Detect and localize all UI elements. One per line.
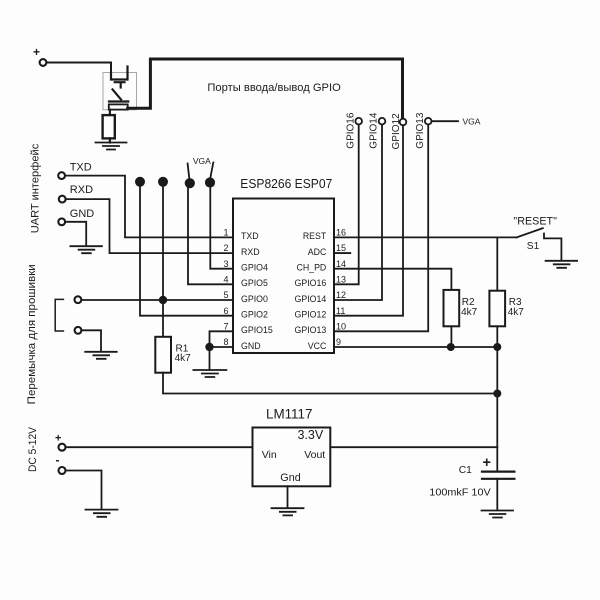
- resistor R2: [444, 290, 460, 326]
- svg-text:GPIO14: GPIO14: [369, 112, 380, 149]
- wire GPIO16 to pin13: [334, 125, 359, 285]
- wire from + to transistor: [47, 63, 111, 75]
- node GPIO13 terminal: [425, 118, 432, 125]
- svg-text:C1: C1: [459, 465, 472, 476]
- switch S1 arm: [517, 228, 543, 237]
- wire GND to ground: [65, 222, 86, 246]
- node pad 3 (to GPIO5 pin4): [185, 178, 195, 188]
- wire pin8 GND to ground join: [210, 346, 234, 348]
- svg-text:100mkF 10V: 100mkF 10V: [429, 488, 490, 499]
- wire RXD to pin2: [66, 199, 233, 253]
- svg-text:VCC: VCC: [308, 341, 327, 351]
- resistor R3: [489, 291, 505, 327]
- svg-text:8: 8: [223, 337, 228, 347]
- svg-text:+: +: [483, 455, 491, 471]
- wire pad4 to pin3: [210, 185, 233, 269]
- wire DC- to ground: [66, 471, 102, 510]
- svg-text:VGA: VGA: [463, 116, 481, 126]
- svg-text:Порты ввода/вывод GPIO: Порты ввода/вывод GPIO: [207, 82, 341, 94]
- svg-text:7: 7: [223, 322, 228, 332]
- svg-text:"RESET": "RESET": [513, 215, 557, 227]
- wire thick feed from transistor to GPIO12 header: [128, 59, 403, 118]
- svg-text:+: +: [33, 45, 40, 59]
- transistor Q1 emitter diagonal stroke: [113, 89, 122, 99]
- svg-text:3: 3: [223, 259, 228, 269]
- wire junction to R1: [162, 300, 164, 337]
- svg-text:REST: REST: [303, 231, 327, 241]
- junction dot R2/VCC: [447, 343, 455, 351]
- junction dot VCC/R1 net: [493, 390, 501, 398]
- wire VCC down to regulator output: [496, 394, 498, 472]
- wire pin16 REST to switch: [334, 236, 517, 238]
- svg-text:GPIO5: GPIO5: [241, 278, 268, 288]
- wire R1 to VCC net: [163, 373, 497, 394]
- node pad 2 (to GPIO0 pin5 net): [158, 177, 168, 187]
- svg-text:S1: S1: [527, 241, 540, 252]
- svg-text:Vin: Vin: [262, 449, 277, 461]
- svg-text:-: -: [56, 453, 60, 467]
- svg-text:9: 9: [336, 337, 341, 347]
- transistor Q1 outline box (faint): [103, 73, 137, 110]
- svg-text:GPIO4: GPIO4: [241, 263, 268, 273]
- ground (LM1117): [272, 508, 304, 515]
- switch S1 contact: [544, 234, 561, 261]
- svg-text:GPIO2: GPIO2: [241, 309, 268, 319]
- junction dot pin5/R1: [159, 296, 167, 304]
- IC U1 ESP8266 box: [233, 199, 334, 354]
- node GPIO14 terminal: [379, 118, 386, 125]
- terminal DC -: [59, 467, 66, 474]
- wire pin15 ADC stub: [334, 252, 350, 254]
- jumper bracket: [55, 299, 63, 331]
- ground (UART GND): [70, 246, 102, 253]
- svg-text:14: 14: [336, 259, 346, 269]
- svg-text:4k7: 4k7: [508, 307, 525, 318]
- wire jumper bottom to ground: [82, 330, 102, 351]
- wire DC+ to Vin: [66, 446, 253, 448]
- wire pad3 to pin4: [188, 186, 233, 284]
- terminal TXD: [58, 172, 65, 179]
- svg-text:GPIO14: GPIO14: [295, 294, 327, 304]
- svg-text:12: 12: [336, 290, 346, 300]
- wire R3 to VCC rail: [496, 326, 498, 347]
- wire GPIO13 to pin10: [334, 125, 428, 332]
- node GPIO16 terminal: [355, 118, 362, 125]
- capacitor C1 plates: [482, 472, 514, 479]
- wire REST to R3: [496, 237, 498, 290]
- wire pin14 CH_PD to R2: [334, 269, 451, 290]
- svg-text:16: 16: [336, 228, 346, 238]
- svg-text:GPIO0: GPIO0: [241, 294, 268, 304]
- wire R2 to VCC rail: [450, 326, 452, 347]
- terminal + (top left supply): [40, 59, 47, 66]
- svg-text:CH_PD: CH_PD: [296, 263, 326, 273]
- wire transistor to base resistor: [109, 110, 111, 116]
- ground (DC-): [86, 510, 118, 517]
- svg-text:GPIO13: GPIO13: [295, 325, 327, 335]
- terminal RXD: [59, 196, 66, 203]
- regulator U2 LM1117 box: [253, 428, 331, 487]
- svg-text:4k7: 4k7: [175, 353, 192, 364]
- stub pad3: [188, 164, 190, 179]
- terminal DC +: [59, 444, 66, 451]
- svg-text:Vout: Vout: [304, 449, 325, 461]
- node pad 4 (to GPIO4 pin3): [205, 177, 215, 187]
- svg-text:1: 1: [223, 228, 228, 238]
- wire pad1 to pin6: [140, 184, 233, 316]
- transistor Q1 collector cup stroke: [111, 67, 128, 80]
- terminal jumper top: [75, 296, 82, 303]
- svg-text:GPIO15: GPIO15: [241, 325, 273, 335]
- ground (below transistor): [96, 143, 127, 150]
- junction dot R3/VCC: [493, 343, 501, 351]
- wire pin7 GPIO15 to ground join: [210, 331, 234, 347]
- wire Gnd pin to ground: [287, 486, 289, 508]
- svg-text:GPIO12: GPIO12: [295, 309, 327, 319]
- ground (pins 7/8): [193, 370, 226, 377]
- svg-text:4: 4: [223, 275, 228, 285]
- svg-text:TXD: TXD: [241, 231, 259, 241]
- svg-text:Gnd: Gnd: [280, 472, 300, 484]
- svg-text:10: 10: [336, 322, 346, 332]
- transistor Q1 bottom bar: [109, 100, 128, 102]
- svg-text:6: 6: [223, 306, 228, 316]
- wire GPIO14 to pin12: [334, 125, 382, 301]
- svg-text:DC 5-12V: DC 5-12V: [27, 426, 39, 472]
- resistor R1: [155, 337, 171, 373]
- junction dot pin7/pin8: [205, 343, 213, 351]
- svg-text:RXD: RXD: [70, 184, 93, 196]
- svg-text:GND: GND: [70, 208, 95, 220]
- svg-text:2: 2: [223, 243, 228, 253]
- node GPIO12 terminal: [400, 119, 407, 126]
- wire C1 to ground: [496, 479, 498, 510]
- wire Vout to C1/VCC: [330, 446, 497, 448]
- wire GPIO13 to VGA: [432, 120, 459, 122]
- svg-text:VGA: VGA: [193, 156, 211, 166]
- svg-text:TXD: TXD: [70, 161, 92, 173]
- svg-text:4k7: 4k7: [461, 307, 478, 318]
- ground (jumper): [85, 352, 117, 359]
- wire resistor to ground: [109, 138, 111, 142]
- resistor (base, unlabeled): [103, 115, 115, 138]
- ground (S1): [546, 261, 578, 268]
- node pad 1 (to GPIO2 pin6): [135, 177, 145, 187]
- svg-text:Перемычка для прошивки: Перемычка для прошивки: [26, 264, 38, 404]
- svg-text:UART интерфейс: UART интерфейс: [29, 143, 41, 233]
- terminal GND: [58, 218, 65, 225]
- wire pin9 VCC rail: [334, 346, 497, 348]
- svg-text:11: 11: [336, 306, 345, 316]
- stub pad4: [210, 163, 213, 179]
- wire pad2 down to junction: [162, 185, 164, 301]
- transistor Q1 body rectangle: [109, 104, 128, 109]
- svg-text:13: 13: [336, 275, 346, 285]
- svg-text:GPIO16: GPIO16: [345, 112, 356, 149]
- svg-text:GPIO13: GPIO13: [415, 112, 426, 149]
- ground (C1): [482, 511, 514, 518]
- svg-text:3.3V: 3.3V: [298, 428, 324, 442]
- svg-text:RXD: RXD: [241, 247, 260, 257]
- wire join to ground: [209, 347, 211, 370]
- svg-text:ADC: ADC: [308, 247, 327, 257]
- svg-text:5: 5: [223, 290, 228, 300]
- svg-text:ESP8266 ESP07: ESP8266 ESP07: [240, 177, 332, 191]
- svg-text:+: +: [55, 433, 61, 445]
- svg-text:LM1117: LM1117: [266, 406, 312, 421]
- wire GPIO12 to pin11: [334, 125, 403, 315]
- svg-text:GPIO16: GPIO16: [295, 278, 327, 288]
- wire jumper top to pin5: [81, 299, 233, 301]
- wire TXD to pin1: [65, 176, 233, 238]
- svg-text:GPIO12: GPIO12: [391, 113, 402, 150]
- terminal jumper bottom: [75, 327, 82, 334]
- svg-text:GND: GND: [241, 341, 261, 351]
- svg-text:15: 15: [336, 243, 346, 253]
- transistor Q1 base tee stroke: [115, 82, 125, 87]
- wire VCC rail down: [496, 347, 498, 394]
